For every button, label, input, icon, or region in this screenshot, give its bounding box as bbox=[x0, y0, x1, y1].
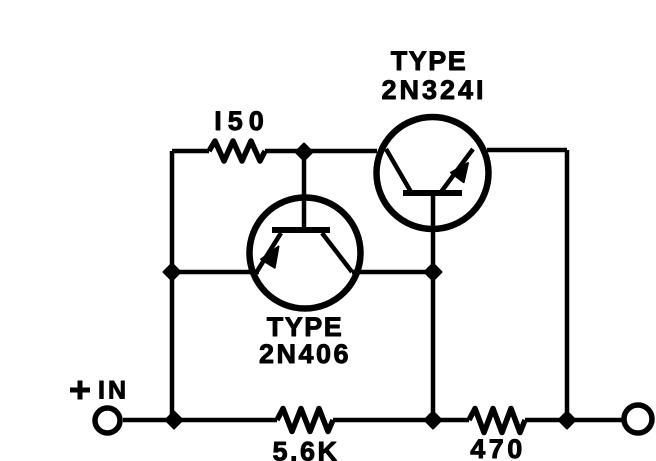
junction node: Q1 collector / Q2 base bbox=[425, 264, 442, 281]
svg-text:470: 470 bbox=[470, 434, 526, 461]
resistor R1 150 bbox=[209, 141, 265, 161]
resistor R3 470 bbox=[469, 409, 525, 433]
wire between 5.6K and 470 bbox=[333, 418, 469, 423]
wire Q1 base lead vertical bbox=[302, 152, 307, 230]
junction node: bottom middle (Q2 base column) bbox=[425, 412, 442, 429]
wire right vertical bbox=[565, 150, 570, 420]
label + IN bbox=[70, 377, 129, 405]
junction node: input wire / left vertical bbox=[166, 412, 183, 429]
transistor Q1 TYPE 2N406 (PNP) bbox=[250, 198, 361, 309]
junction node: left vertical / middle wire bbox=[164, 264, 181, 281]
svg-text:2N406: 2N406 bbox=[259, 339, 351, 369]
svg-text:TYPE: TYPE bbox=[391, 46, 468, 76]
transistor Q2 TYPE 2N3241 (NPN) bbox=[377, 117, 489, 229]
resistor R2 5.6K bbox=[277, 409, 333, 432]
wire bottom: input terminal to resistor 5.6K bbox=[123, 418, 277, 423]
output terminal circle bbox=[624, 405, 652, 433]
wire Q1 collector to Q2 base column bbox=[352, 270, 433, 275]
input terminal circle bbox=[95, 408, 120, 433]
wire top-right horizontal (Q2 emitter to right vertical) bbox=[487, 148, 567, 153]
wire top-left horizontal (left vertical to resistor 150) bbox=[172, 149, 209, 154]
junction node: top wire / Q1 base bbox=[296, 144, 313, 161]
wire resistor 150 to Q2 collector bbox=[265, 149, 377, 154]
svg-text:2N324I: 2N324I bbox=[381, 75, 486, 105]
wire left vertical bbox=[170, 151, 175, 420]
svg-text:TYPE: TYPE bbox=[267, 312, 344, 342]
svg-text:IN: IN bbox=[98, 377, 129, 405]
wire 470 to output terminal bbox=[525, 418, 624, 423]
svg-text:5.6K: 5.6K bbox=[272, 437, 339, 461]
svg-text:I50: I50 bbox=[214, 106, 270, 136]
wire middle-left horizontal to Q1 emitter bbox=[172, 270, 259, 275]
junction node: bottom right (right vertical) bbox=[559, 412, 576, 429]
wire Q2 base lead vertical down to bottom wire bbox=[431, 193, 436, 420]
